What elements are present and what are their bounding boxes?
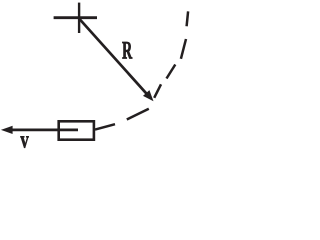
radius arrow R shaft [80, 19, 148, 94]
dashed circle path dash 3 [167, 65, 176, 79]
dashed circle path dash 5 [127, 109, 149, 120]
dashed circle path dash 4 [154, 84, 161, 98]
radius arrow R arrowhead [143, 90, 154, 101]
label v [20, 136, 28, 147]
dashed circle path dash 2 [181, 39, 186, 59]
center cross vertical line [78, 3, 80, 33]
dashed circle path dash 1 (top right) [187, 11, 189, 26]
velocity arrow arrowhead [1, 126, 13, 134]
label R [122, 42, 132, 58]
block (cart) rectangle [59, 121, 94, 139]
center cross horizontal line [54, 16, 97, 19]
dashed circle path dash 6 (meets block) [95, 124, 115, 129]
velocity arrow shaft [12, 129, 78, 132]
